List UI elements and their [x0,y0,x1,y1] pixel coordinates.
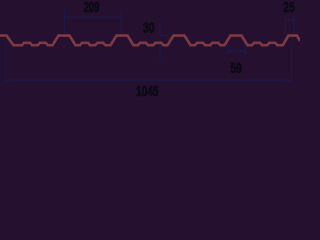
svg-text:59: 59 [230,61,242,77]
dim 209 extension line left [64,10,66,33]
dim 1045 arrow left [5,79,9,82]
dim 25 extension line right [293,16,295,35]
dim 25 extension line left [285,16,287,35]
dim 59 extension line left [228,44,230,55]
dim 1045 dimension line [5,79,292,81]
dim 209 arrow right [117,15,121,18]
dim 30 upper leader line [159,24,161,36]
sheet profile outline [0,36,300,46]
dim 25 arrow left [286,19,289,22]
dim 1045 extension line left [4,40,6,83]
dim 209 extension line right [120,10,122,33]
svg-text:25: 25 [283,0,295,16]
dim 30 lower arrow (up) [158,45,162,50]
svg-text:209: 209 [84,0,100,16]
dim 209 dimension line [65,16,122,18]
dim 30 crest level tick [160,35,170,37]
dim 59 arrow left [229,49,232,52]
dim 59 arrow right [242,49,245,52]
svg-text:30: 30 [143,21,155,37]
dim 59 extension line right [244,44,246,55]
dim 1045 extension line right [291,43,293,83]
dim 59 dimension line [229,50,246,52]
dim 30 upper arrow (down) [158,31,162,36]
dim 25 arrow right [291,19,294,22]
dim 30 lower leader line [159,46,161,59]
svg-text:1045: 1045 [136,84,158,99]
dim 25 dimension line [286,19,295,21]
dim 1045 arrow right [288,79,292,82]
dim 209 arrow left [65,15,69,18]
